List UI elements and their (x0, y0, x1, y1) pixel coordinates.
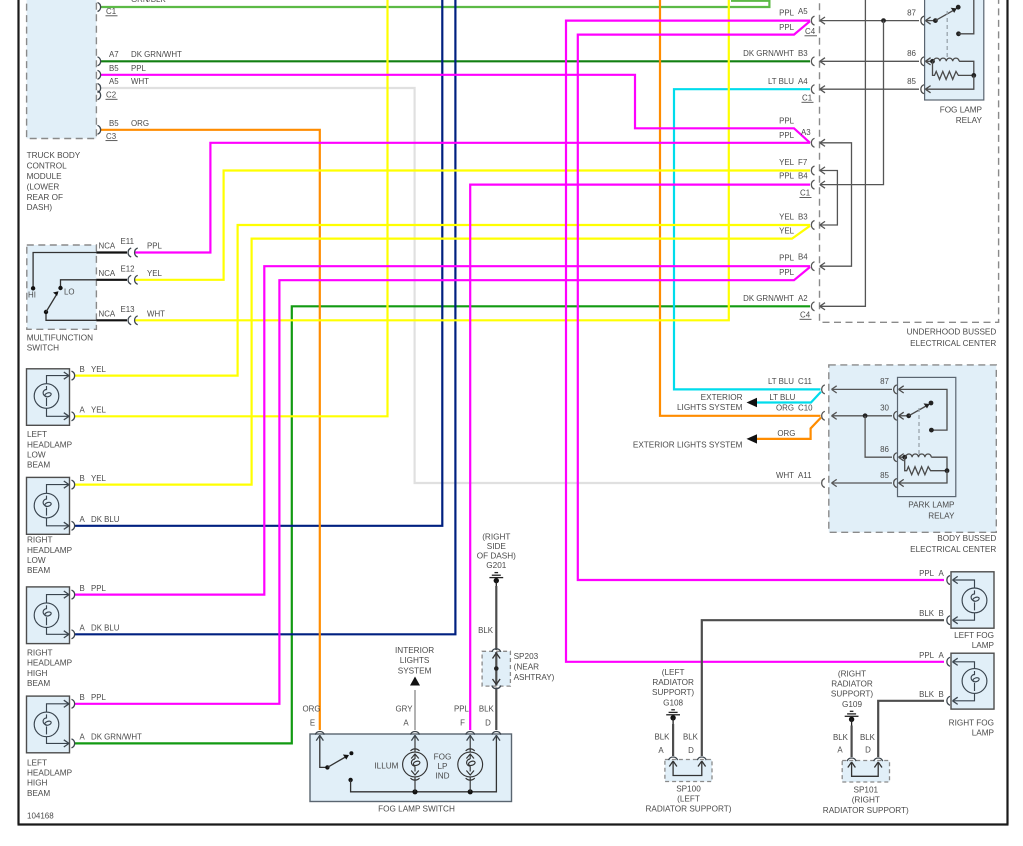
svg-text:D: D (485, 719, 491, 728)
svg-text:RELAY: RELAY (928, 512, 955, 521)
svg-text:(NEAR: (NEAR (514, 663, 540, 672)
svg-text:RADIATOR: RADIATOR (831, 680, 873, 689)
splice SP203 box (dashed) (482, 651, 510, 686)
svg-text:LAMP: LAMP (972, 729, 995, 738)
right headlamp high beam box (27, 587, 70, 644)
wire YEL from left headlamp low beam A up off page (74, 0, 388, 416)
svg-text:C1: C1 (106, 7, 116, 16)
svg-text:WHT: WHT (776, 471, 794, 480)
svg-text:86: 86 (907, 49, 916, 58)
svg-text:LT BLU: LT BLU (769, 393, 795, 402)
svg-text:86: 86 (880, 445, 889, 454)
svg-text:B: B (80, 693, 85, 702)
svg-text:PPL: PPL (779, 172, 795, 181)
svg-text:87: 87 (880, 377, 889, 386)
svg-text:NCA: NCA (99, 242, 116, 251)
right fog lamp box (951, 653, 994, 709)
svg-text:WHT: WHT (147, 309, 165, 318)
UBEC internal wire A5 to fog lamp relay 87 (820, 20, 919, 22)
wire DK BLU from right headlamp low beam A up off page (74, 0, 442, 526)
svg-text:87: 87 (907, 8, 916, 17)
svg-text:85: 85 (880, 471, 889, 480)
svg-text:A: A (80, 515, 86, 524)
svg-text:BLK: BLK (479, 705, 495, 714)
svg-text:B3: B3 (798, 49, 808, 58)
wire LT BLU from BBEC C11 to exterior lights system arrow (756, 392, 821, 403)
svg-text:F: F (460, 719, 465, 728)
park lamp relay: resistor parallel with coil (905, 457, 947, 475)
svg-text:LEFT FOG: LEFT FOG (954, 631, 994, 640)
svg-text:E13: E13 (121, 305, 136, 314)
svg-text:PPL: PPL (779, 9, 795, 18)
fog lamp relay: arm tip dot (956, 5, 961, 10)
svg-text:RIGHT FOG: RIGHT FOG (949, 719, 994, 728)
svg-text:FOG LAMP: FOG LAMP (940, 106, 983, 115)
multifunction switch box (27, 245, 97, 329)
svg-text:CONTROL: CONTROL (27, 162, 67, 171)
svg-text:EXTERIOR LIGHTS SYSTEM: EXTERIOR LIGHTS SYSTEM (633, 440, 743, 449)
svg-text:A5: A5 (109, 77, 119, 86)
MFS pin double arcs E11,E12,E13 (128, 248, 138, 257)
UBEC internal wire A3 to B4 (820, 143, 852, 266)
UBEC pin arcs and arrows A5,B3,A4,A3,F7,B4,B3,B4,A2 (811, 16, 825, 311)
svg-text:D: D (688, 746, 694, 755)
svg-text:NCA: NCA (99, 309, 116, 318)
svg-text:A: A (658, 746, 664, 755)
left headlamp low beam bulb (34, 376, 69, 417)
svg-text:FOG: FOG (434, 753, 452, 762)
exterior lights system arrow upper (747, 398, 758, 407)
svg-text:G108: G108 (663, 698, 683, 707)
left fog lamp bulb (953, 580, 987, 620)
splice SP100 box (dashed) (665, 760, 712, 782)
svg-text:HI: HI (28, 291, 36, 300)
svg-text:BEAM: BEAM (27, 461, 50, 470)
BBEC junction dot and wire to relay 86 (863, 413, 868, 418)
right headlamp high beam bulb (34, 595, 69, 635)
svg-text:A: A (80, 624, 86, 633)
ground G109 symbol (845, 711, 859, 725)
UBEC internal wire B3 to fog lamp relay 86 (820, 60, 919, 62)
wire green sliver at top edge (731, 0, 769, 2)
park lamp relay pin arcs and arrows 87,30,86,85 (894, 385, 904, 488)
svg-text:PPL: PPL (91, 693, 107, 702)
splice SP101 internals (852, 763, 879, 776)
wire BLK from G109 to SP101 A (850, 726, 852, 758)
wire PPL from UBEC C4 to left fog lamp A (578, 21, 944, 580)
fog lamp switch internal: ILLUM lamp (403, 735, 428, 792)
fog lamp relay: actuation dashed line (946, 11, 948, 57)
fog lamp switch box (310, 734, 512, 802)
svg-text:PPL: PPL (779, 131, 795, 140)
svg-text:TRUCK BODY: TRUCK BODY (27, 151, 81, 160)
svg-text:A2: A2 (798, 294, 808, 303)
svg-text:B3: B3 (798, 213, 808, 222)
svg-text:F7: F7 (798, 158, 807, 167)
svg-text:LOW: LOW (27, 556, 46, 565)
svg-text:LAMP: LAMP (972, 641, 995, 650)
svg-text:LOW: LOW (27, 451, 46, 460)
splice SP100 internals (673, 762, 702, 776)
svg-text:B: B (939, 690, 944, 699)
fog lamp pin arcs and arrows (left A,B right A,B) (947, 576, 958, 706)
svg-text:E: E (310, 719, 315, 728)
park lamp relay: 85 wire to coil/resistor (899, 471, 948, 483)
svg-text:YEL: YEL (91, 365, 107, 374)
fog lamp switch internal: FOG LP IND lamp (458, 735, 483, 792)
wire PPL from right headlamp high beam B to UBEC B4 upper (74, 266, 810, 594)
wire PPL from UBEC B4/C1 to fog lamp switch pin F (470, 185, 810, 730)
wire ORG from BBEC C10 to exterior lights system arrow (756, 418, 821, 439)
fog lamp switch internal: pin E to pivot (320, 735, 328, 767)
svg-text:BLK: BLK (833, 733, 849, 742)
wire PPL from left headlamp high beam B to UBEC B4 lower (74, 267, 810, 704)
svg-text:RIGHT: RIGHT (27, 649, 52, 658)
svg-text:DK GRN/WHT: DK GRN/WHT (743, 49, 794, 58)
svg-text:PPL: PPL (779, 268, 795, 277)
svg-text:ORG: ORG (303, 705, 321, 714)
svg-text:LIGHTS SYSTEM: LIGHTS SYSTEM (677, 403, 743, 412)
wire YEL from MFS E12 to UBEC F7 (134, 171, 810, 280)
svg-text:E11: E11 (121, 237, 134, 246)
svg-text:YEL: YEL (779, 213, 795, 222)
svg-text:DK BLU: DK BLU (91, 624, 120, 633)
ground G108 symbol (666, 710, 680, 724)
svg-text:LT BLU: LT BLU (768, 377, 794, 386)
svg-text:LEFT: LEFT (27, 758, 47, 767)
svg-text:G201: G201 (486, 561, 506, 570)
MFS internal: E12 wire to LO contact (61, 280, 97, 288)
wire ORG from off page top to BBEC C10 (660, 0, 821, 416)
svg-text:PPL: PPL (779, 116, 795, 125)
svg-text:B: B (939, 609, 944, 618)
body bussed electrical center (dashed) (829, 365, 997, 532)
wire YEL from left headlamp low beam B to UBEC B3 upper (74, 225, 810, 376)
svg-text:DK GRN/WHT: DK GRN/WHT (743, 294, 794, 303)
svg-text:A: A (80, 733, 86, 742)
underhood bussed electrical center (dashed, top cut off) (820, 0, 999, 322)
fog lamp switch internal: switch arm (327, 756, 348, 768)
svg-text:HEADLAMP: HEADLAMP (27, 659, 73, 668)
wire LT BLU from UBEC A4/C1 to BBEC C11 (674, 89, 821, 389)
SP100 pin arcs (669, 757, 678, 760)
svg-text:SWITCH: SWITCH (27, 344, 59, 353)
fog lamp relay box (top cut off) (925, 0, 984, 100)
right headlamp low beam box (27, 477, 70, 534)
svg-text:BLK: BLK (655, 733, 671, 742)
svg-text:ILLUM: ILLUM (374, 762, 398, 771)
fog lamp relay: 85 wire to coil/resistor (925, 75, 973, 89)
svg-text:C3: C3 (106, 132, 117, 141)
svg-text:30: 30 (880, 404, 889, 413)
svg-text:PPL: PPL (454, 705, 470, 714)
wire DK GRN/WHT from left headlamp high beam A to UBEC A2/C4 (74, 306, 810, 743)
ground G201 symbol (489, 573, 503, 586)
svg-text:B: B (80, 365, 85, 374)
wire PPL from UBEC A5 to right fog lamp A (566, 21, 944, 662)
svg-text:LEFT: LEFT (27, 430, 47, 439)
left headlamp low beam box (27, 369, 70, 426)
UBEC junction dot on 87 wire (881, 18, 886, 23)
svg-text:A: A (403, 719, 409, 728)
svg-text:PPL: PPL (779, 23, 795, 32)
svg-text:DK BLU: DK BLU (91, 515, 120, 524)
svg-text:B5: B5 (109, 64, 119, 73)
svg-text:GRY: GRY (396, 705, 414, 714)
svg-text:B: B (80, 474, 85, 483)
svg-text:PPL: PPL (779, 254, 795, 263)
BBEC internal wire A11 to park lamp relay 85 (832, 482, 893, 484)
SP101 pin arcs (847, 758, 856, 761)
svg-text:A7: A7 (109, 50, 119, 59)
svg-text:C4: C4 (800, 311, 811, 320)
svg-text:YEL: YEL (779, 227, 795, 236)
svg-text:YEL: YEL (779, 158, 795, 167)
svg-text:PPL: PPL (147, 242, 163, 251)
wire BLK from G201 through SP203 to fog lamp switch pin D (495, 586, 497, 650)
TBCM pin arcs C1,A7,B5,A5/C2,C3 (98, 3, 101, 12)
svg-text:WHT: WHT (131, 77, 149, 86)
fog lamp relay: fixed contact dot to pin 30 off page (956, 31, 961, 36)
svg-text:C1: C1 (800, 189, 810, 198)
MFS internal: E13 wire to pivot and arm (46, 312, 96, 320)
svg-text:HEADLAMP: HEADLAMP (27, 440, 73, 449)
svg-text:BLK: BLK (683, 733, 699, 742)
svg-text:LO: LO (64, 288, 75, 297)
svg-text:SUPPORT): SUPPORT) (831, 690, 873, 699)
wire YEL(WHT) from MFS E13 up off page (134, 0, 729, 320)
wire ORG from TBCM C3 to fog lamp switch pin E (101, 130, 320, 730)
svg-text:RADIATOR: RADIATOR (652, 678, 694, 687)
svg-text:SP203: SP203 (514, 652, 539, 661)
svg-text:IND: IND (435, 772, 449, 781)
wire PPL from MFS E11 to UBEC A3 lower (134, 143, 810, 253)
fog lamp relay: 87 wire and switch common dot (925, 20, 935, 22)
BBEC pin arcs and arrows C11,C10,A11 (822, 385, 837, 488)
svg-text:A4: A4 (798, 77, 808, 86)
park lamp relay: 87 wire to fixed contact dot (899, 389, 948, 430)
svg-text:DASH): DASH) (27, 203, 53, 212)
SP203 top and bottom arcs (492, 649, 501, 652)
svg-text:BLK: BLK (860, 733, 876, 742)
park lamp relay: actuation dashed line (918, 408, 920, 455)
svg-text:HIGH: HIGH (27, 669, 48, 678)
svg-text:BEAM: BEAM (27, 566, 50, 575)
svg-text:(LOWER: (LOWER (27, 182, 60, 191)
fog lamp switch pin arcs and arrows E,A,F,D (315, 731, 501, 740)
wire DK GRN/WHT from TBCM A7 to UBEC B3 (101, 60, 810, 62)
svg-text:GRN/BLK: GRN/BLK (131, 0, 166, 4)
right headlamp low beam bulb (34, 485, 69, 526)
svg-text:BLK: BLK (919, 690, 935, 699)
interior lights system arrow (410, 677, 420, 686)
svg-text:SP100: SP100 (676, 784, 701, 793)
svg-text:HIGH: HIGH (27, 779, 48, 788)
UBEC internal wire junction to B4/C1 pin (820, 21, 884, 185)
svg-text:ORG: ORG (131, 119, 149, 128)
svg-text:PPL: PPL (919, 651, 935, 660)
wire BLK from G108 to SP100 A (672, 724, 674, 756)
svg-text:PPL: PPL (919, 569, 935, 578)
left fog lamp box (951, 572, 994, 628)
svg-text:C2: C2 (106, 91, 116, 100)
svg-text:REAR OF: REAR OF (27, 193, 63, 202)
svg-text:SP101: SP101 (854, 786, 879, 795)
splice SP101 box (dashed) (842, 761, 889, 783)
svg-text:HEADLAMP: HEADLAMP (27, 769, 73, 778)
park lamp relay: arm tip dot (929, 401, 934, 406)
svg-text:A: A (80, 406, 86, 415)
fog lamp switch internal: lower contact to bus (348, 778, 352, 782)
park lamp relay box (898, 377, 956, 496)
svg-text:MODULE: MODULE (27, 172, 63, 181)
svg-text:SUPPORT): SUPPORT) (652, 688, 694, 697)
splice SP203 internals (494, 666, 499, 671)
svg-text:EXTERIOR: EXTERIOR (701, 393, 743, 402)
svg-text:SYSTEM: SYSTEM (398, 666, 432, 675)
svg-text:BEAM: BEAM (27, 679, 50, 688)
wire GRY from fog lamp switch pin A to interior lights system (414, 690, 416, 730)
MFS internal: E11 wire to HI contact (33, 253, 96, 289)
park lamp relay: coil from 86 (899, 456, 906, 458)
svg-text:104168: 104168 (27, 812, 54, 821)
right fog lamp bulb (953, 662, 987, 701)
svg-text:B4: B4 (798, 253, 808, 262)
svg-text:85: 85 (907, 77, 916, 86)
svg-text:RIGHT: RIGHT (27, 536, 52, 545)
svg-text:YEL: YEL (147, 269, 163, 278)
BBEC internal wire C10 to park lamp relay 30 (832, 415, 893, 417)
wire GRN/BLK from TBCM C1 up off page (101, 0, 769, 7)
svg-text:B4: B4 (798, 172, 808, 181)
fog lamp relay: resistor parallel with coil (933, 61, 974, 79)
MFS pin stubs (96, 251, 127, 253)
svg-text:OF DASH): OF DASH) (477, 552, 516, 561)
wire WHT from TBCM A5/C2 to BBEC A11 (101, 88, 821, 483)
svg-text:A: A (837, 746, 843, 755)
svg-text:LP: LP (437, 762, 448, 771)
left headlamp high beam box (27, 696, 70, 753)
svg-text:A5: A5 (798, 7, 808, 16)
UBEC internal wire A4 to fog lamp relay 85 (820, 88, 919, 90)
UBEC internal wire A2 up off page (820, 0, 866, 306)
left headlamp high beam bulb (34, 704, 69, 744)
svg-text:C11: C11 (798, 377, 812, 386)
svg-text:BLK: BLK (919, 609, 935, 618)
svg-text:PARK LAMP: PARK LAMP (908, 501, 955, 510)
svg-text:A3: A3 (801, 128, 811, 137)
svg-text:ELECTRICAL CENTER: ELECTRICAL CENTER (910, 545, 996, 554)
BBEC internal wire C11 to park lamp relay 87 (832, 388, 893, 390)
svg-text:BODY BUSSED: BODY BUSSED (937, 534, 996, 543)
svg-text:BEAM: BEAM (27, 789, 50, 798)
svg-text:RELAY: RELAY (956, 116, 983, 125)
fog lamp switch internal: bus junction dots (412, 789, 417, 794)
svg-text:ORG: ORG (777, 429, 795, 438)
svg-text:A: A (939, 651, 945, 660)
wire YEL from right headlamp low beam B to UBEC B3 lower (74, 226, 810, 485)
svg-text:G109: G109 (842, 700, 862, 709)
fog lamp relay: switch arm with arrowhead (935, 9, 956, 21)
svg-text:C10: C10 (798, 404, 813, 413)
svg-text:(LEFT: (LEFT (662, 668, 685, 677)
svg-text:SIDE: SIDE (487, 542, 507, 551)
svg-text:LIGHTS: LIGHTS (400, 656, 430, 665)
UBEC internal wire F7 to B3 (820, 171, 838, 226)
svg-text:YEL: YEL (91, 474, 107, 483)
truck body control module (dashed box, top cut off) (27, 0, 97, 139)
svg-text:DK GRN/WHT: DK GRN/WHT (91, 733, 142, 742)
svg-text:(LEFT: (LEFT (677, 795, 700, 804)
wire PPL from TBCM B5 to UBEC A3 upper (101, 75, 810, 143)
svg-text:NCA: NCA (99, 269, 116, 278)
fog lamp relay: coil from 86 (925, 60, 933, 62)
svg-text:ASHTRAY): ASHTRAY) (514, 673, 555, 682)
svg-text:C4: C4 (805, 27, 816, 36)
svg-text:LT BLU: LT BLU (768, 77, 794, 86)
svg-text:RADIATOR SUPPORT): RADIATOR SUPPORT) (646, 805, 732, 814)
svg-text:YEL: YEL (91, 406, 107, 415)
svg-text:(RIGHT: (RIGHT (838, 669, 866, 678)
svg-text:BLK: BLK (478, 626, 494, 635)
svg-text:MULTIFUNCTION: MULTIFUNCTION (27, 333, 93, 342)
svg-text:UNDERHOOD BUSSED: UNDERHOOD BUSSED (907, 328, 997, 337)
svg-text:E12: E12 (121, 264, 135, 273)
svg-text:FOG LAMP SWITCH: FOG LAMP SWITCH (378, 805, 455, 814)
svg-text:ELECTRICAL CENTER: ELECTRICAL CENTER (910, 339, 996, 348)
svg-text:PPL: PPL (91, 584, 107, 593)
park lamp relay: 30 common dot and switch arm (899, 415, 909, 417)
svg-text:(RIGHT: (RIGHT (482, 533, 510, 542)
headlamp pin arcs and arrows (LHL B,A / RHL B,A / RHH B,A / LHH B,A) (64, 371, 75, 748)
exterior lights system arrow lower (747, 434, 758, 443)
svg-text:C1: C1 (802, 94, 812, 103)
svg-text:A11: A11 (798, 471, 811, 480)
fog lamp relay pin arcs and arrows 87,86,85 (921, 16, 931, 94)
svg-text:RADIATOR SUPPORT): RADIATOR SUPPORT) (823, 806, 909, 815)
svg-text:B: B (80, 584, 85, 593)
svg-text:A: A (939, 569, 945, 578)
wire BLK from right fog lamp B to SP101 D (878, 701, 944, 757)
svg-text:(RIGHT: (RIGHT (852, 796, 880, 805)
wire BLK from left fog lamp B to SP100 D (702, 620, 944, 756)
wire DK BLU from right headlamp high beam A up off page (74, 0, 455, 634)
svg-text:PPL: PPL (131, 64, 147, 73)
svg-text:B5: B5 (109, 119, 119, 128)
svg-text:ORG: ORG (776, 404, 794, 413)
svg-text:DK GRN/WHT: DK GRN/WHT (131, 50, 182, 59)
svg-text:D: D (865, 746, 871, 755)
svg-text:INTERIOR: INTERIOR (395, 646, 434, 655)
svg-text:HEADLAMP: HEADLAMP (27, 546, 73, 555)
